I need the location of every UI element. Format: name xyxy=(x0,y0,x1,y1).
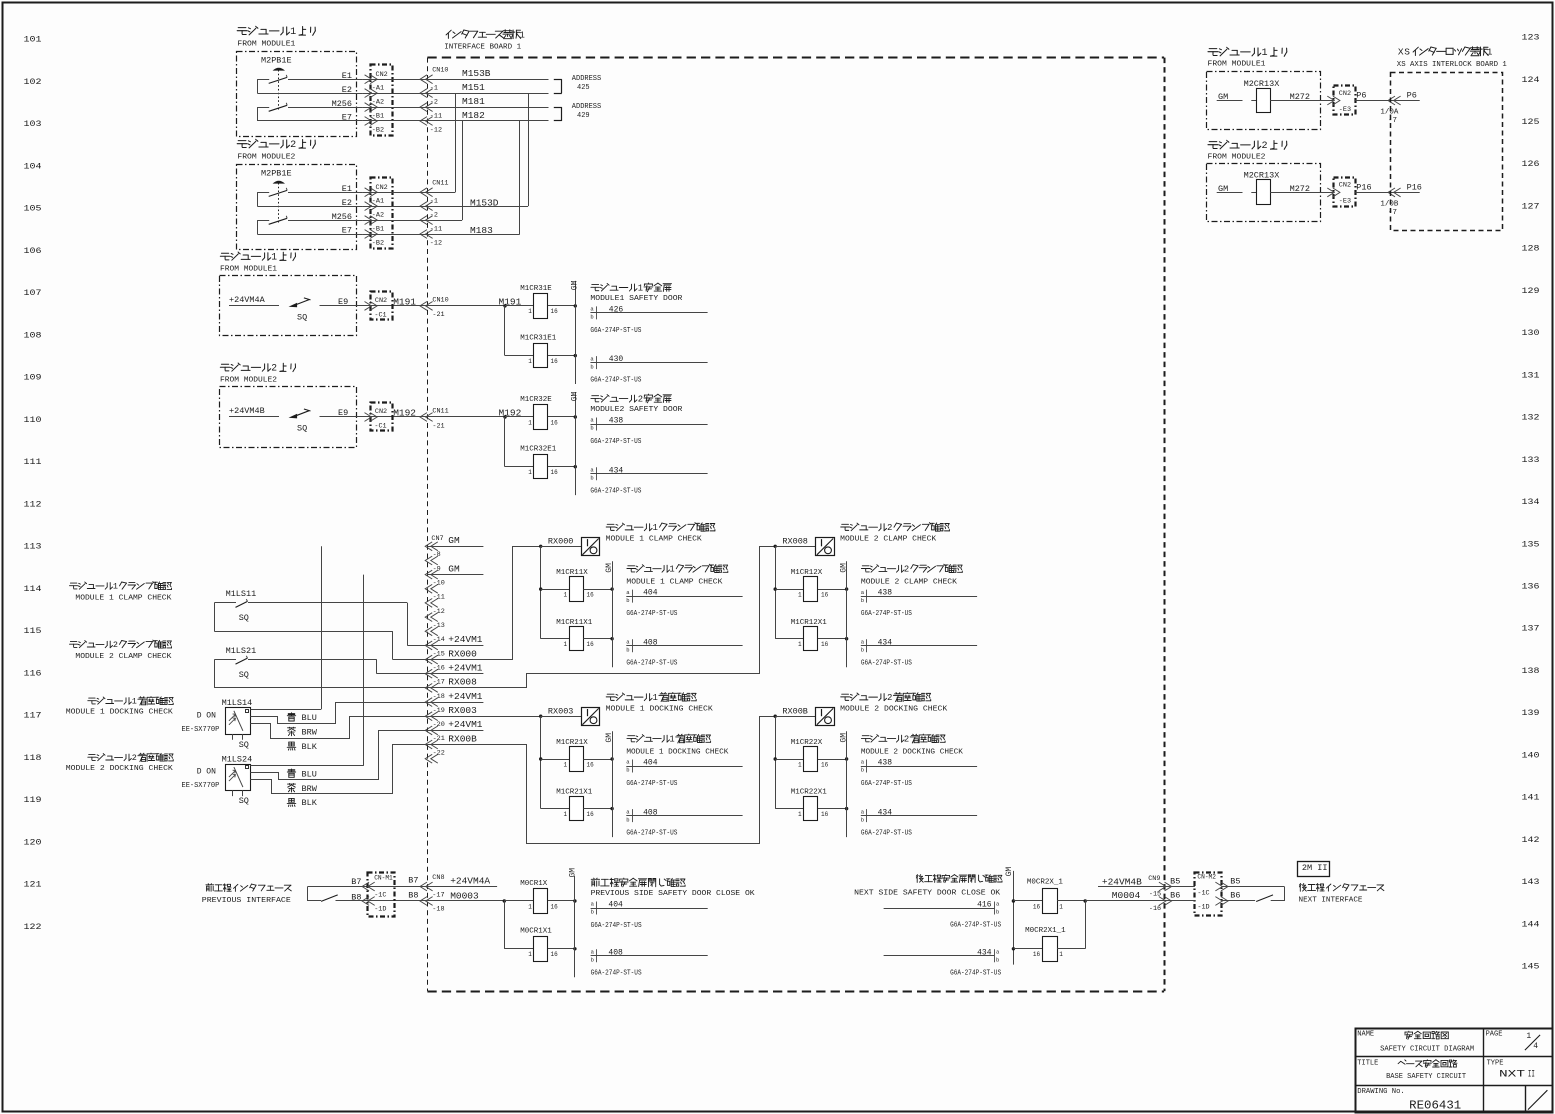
svg-text:1: 1 xyxy=(1487,46,1493,57)
svg-text:16: 16 xyxy=(821,811,829,818)
svg-text:E2: E2 xyxy=(342,198,352,208)
svg-text:16: 16 xyxy=(551,358,559,365)
svg-text:CN2: CN2 xyxy=(375,297,387,305)
svg-text:FROM MODULE1: FROM MODULE1 xyxy=(220,266,277,274)
svg-text:M1CR32E1: M1CR32E1 xyxy=(520,446,557,454)
svg-text:-13: -13 xyxy=(433,622,445,630)
svg-text:P16: P16 xyxy=(1356,182,1371,192)
svg-text:SQ: SQ xyxy=(239,740,249,750)
svg-text:139: 139 xyxy=(1522,708,1540,718)
svg-text:G6A-274P-ST-US: G6A-274P-ST-US xyxy=(626,610,677,618)
svg-text:M0CR1X1: M0CR1X1 xyxy=(520,928,552,936)
svg-text:144: 144 xyxy=(1522,919,1540,929)
svg-text:134: 134 xyxy=(1522,497,1540,507)
svg-text:b: b xyxy=(626,597,629,604)
svg-text:2: 2 xyxy=(113,640,118,650)
svg-text:CN8: CN8 xyxy=(432,874,444,882)
svg-text:-12: -12 xyxy=(430,240,442,248)
svg-text:16: 16 xyxy=(587,641,595,648)
svg-text:P16: P16 xyxy=(1407,182,1422,192)
svg-text:BRW: BRW xyxy=(302,784,318,794)
svg-text:-C1: -C1 xyxy=(374,312,386,320)
svg-text:1: 1 xyxy=(669,735,674,745)
svg-text:ADDRESS: ADDRESS xyxy=(572,75,601,83)
svg-text:1: 1 xyxy=(564,811,568,818)
svg-text:141: 141 xyxy=(1522,793,1540,803)
svg-text:G6A-274P-ST-US: G6A-274P-ST-US xyxy=(861,610,912,618)
svg-text:-14: -14 xyxy=(433,636,445,644)
svg-text:M1CR31E: M1CR31E xyxy=(520,285,552,293)
svg-text:II: II xyxy=(1317,863,1327,873)
svg-text:E9: E9 xyxy=(338,297,348,307)
svg-text:B6: B6 xyxy=(1170,891,1180,901)
svg-text:b: b xyxy=(626,816,629,823)
svg-text:-21: -21 xyxy=(432,422,444,430)
svg-text:1: 1 xyxy=(519,29,525,40)
svg-text:M1LS11: M1LS11 xyxy=(226,589,257,599)
svg-text:b: b xyxy=(591,957,594,964)
svg-text:PAGE: PAGE xyxy=(1486,1030,1503,1038)
svg-text:137: 137 xyxy=(1522,624,1540,634)
svg-text:1: 1 xyxy=(528,903,532,910)
svg-text:CN2: CN2 xyxy=(1339,182,1351,190)
svg-text:M256: M256 xyxy=(332,99,352,109)
svg-text:106: 106 xyxy=(24,246,42,256)
svg-text:M1CR22X: M1CR22X xyxy=(791,739,823,747)
svg-text:105: 105 xyxy=(24,204,42,214)
svg-text:G6A-274P-ST-US: G6A-274P-ST-US xyxy=(590,488,641,496)
svg-text:b: b xyxy=(590,474,593,481)
svg-text:M191: M191 xyxy=(393,296,416,307)
svg-text:145: 145 xyxy=(1522,962,1540,972)
svg-text:16: 16 xyxy=(821,591,829,598)
svg-text:G6A-274P-ST-US: G6A-274P-ST-US xyxy=(626,660,677,668)
svg-text:RX003: RX003 xyxy=(448,705,477,716)
svg-text:-19: -19 xyxy=(433,707,445,715)
svg-text:E1: E1 xyxy=(342,71,352,81)
svg-text:1: 1 xyxy=(271,252,277,263)
svg-text:-15: -15 xyxy=(1149,891,1161,899)
svg-text:INTERFACE BOARD 1: INTERFACE BOARD 1 xyxy=(444,44,521,52)
svg-text:-16: -16 xyxy=(1149,905,1161,913)
svg-text:1: 1 xyxy=(113,582,118,592)
svg-text:CN10: CN10 xyxy=(432,297,448,305)
svg-text:131: 131 xyxy=(1522,370,1540,380)
svg-text:B7: B7 xyxy=(408,876,418,886)
svg-text:G6A-274P-ST-US: G6A-274P-ST-US xyxy=(591,922,642,930)
svg-text:126: 126 xyxy=(1522,159,1540,169)
svg-text:130: 130 xyxy=(1522,328,1540,338)
svg-text:BLK: BLK xyxy=(302,742,318,752)
svg-text:M1LS24: M1LS24 xyxy=(222,755,253,765)
svg-text:434: 434 xyxy=(977,948,992,957)
svg-text:CN11: CN11 xyxy=(432,180,448,188)
svg-text:2: 2 xyxy=(887,522,892,533)
svg-text:2: 2 xyxy=(638,395,643,405)
svg-text:G6A-274P-ST-US: G6A-274P-ST-US xyxy=(590,327,641,335)
svg-text:RX000: RX000 xyxy=(548,537,574,547)
svg-text:1: 1 xyxy=(1059,951,1063,958)
svg-text:BASE SAFETY CIRCUIT: BASE SAFETY CIRCUIT xyxy=(1386,1073,1466,1081)
svg-text:M1CR11X1: M1CR11X1 xyxy=(556,619,593,627)
svg-text:CN2: CN2 xyxy=(376,184,388,192)
svg-text:M182: M182 xyxy=(462,110,485,121)
svg-text:+24VM1: +24VM1 xyxy=(448,691,483,702)
svg-text:1: 1 xyxy=(290,27,296,38)
svg-text:112: 112 xyxy=(24,499,42,509)
svg-text:119: 119 xyxy=(24,795,42,805)
svg-text:MODULE 2 DOCKING CHECK: MODULE 2 DOCKING CHECK xyxy=(861,748,964,756)
svg-text:M2PB1E: M2PB1E xyxy=(261,169,292,179)
svg-text:426: 426 xyxy=(609,306,624,315)
svg-text:CN2: CN2 xyxy=(375,408,387,416)
svg-text:16: 16 xyxy=(821,641,829,648)
svg-text:CN-M2: CN-M2 xyxy=(1197,874,1216,881)
svg-text:E9: E9 xyxy=(338,408,348,418)
svg-text:MODULE 1 DOCKING CHECK: MODULE 1 DOCKING CHECK xyxy=(606,706,714,714)
svg-text:2: 2 xyxy=(904,735,909,745)
svg-text:SQ: SQ xyxy=(239,796,249,806)
svg-text:108: 108 xyxy=(24,330,42,340)
svg-text:ADDRESS: ADDRESS xyxy=(572,103,601,111)
svg-text:M1CR31E1: M1CR31E1 xyxy=(520,334,557,342)
svg-text:FROM MODULE2: FROM MODULE2 xyxy=(1208,154,1266,162)
svg-text:SQ: SQ xyxy=(239,613,249,623)
svg-text:FROM MODULE1: FROM MODULE1 xyxy=(237,41,295,49)
svg-text:4: 4 xyxy=(1533,1042,1538,1051)
svg-text:GM: GM xyxy=(839,563,848,573)
svg-text:16: 16 xyxy=(551,469,559,476)
svg-text:BLU: BLU xyxy=(302,713,317,723)
svg-text:RE06431: RE06431 xyxy=(1409,1099,1461,1113)
svg-text:EE-SX770P: EE-SX770P xyxy=(182,726,220,734)
svg-text:-A1: -A1 xyxy=(372,198,384,206)
svg-text:2: 2 xyxy=(290,140,296,151)
svg-text:+24VM4B: +24VM4B xyxy=(229,406,265,416)
svg-text:122: 122 xyxy=(24,922,42,932)
svg-text:-8: -8 xyxy=(433,551,441,559)
svg-text:-12: -12 xyxy=(430,127,442,135)
svg-text:BLU: BLU xyxy=(302,769,317,779)
svg-text:2: 2 xyxy=(887,692,892,703)
svg-text:PREVIOUS SIDE SAFETY DOOR CLOS: PREVIOUS SIDE SAFETY DOOR CLOSE OK xyxy=(591,890,756,898)
svg-text:b: b xyxy=(626,767,629,774)
svg-text:-E3: -E3 xyxy=(1339,198,1351,206)
svg-text:M192: M192 xyxy=(393,407,416,418)
svg-text:b: b xyxy=(996,909,999,916)
svg-text:M153B: M153B xyxy=(462,68,491,79)
svg-text:1: 1 xyxy=(798,811,802,818)
svg-text:BLK: BLK xyxy=(302,798,318,808)
svg-text:b: b xyxy=(590,425,593,432)
svg-text:117: 117 xyxy=(24,711,42,721)
svg-text:NEXT INTERFACE: NEXT INTERFACE xyxy=(1299,896,1363,904)
svg-text:M1CR21X: M1CR21X xyxy=(556,739,588,747)
svg-text:109: 109 xyxy=(24,373,42,383)
svg-text:XS AXIS INTERLOCK BOARD 1: XS AXIS INTERLOCK BOARD 1 xyxy=(1397,61,1507,69)
svg-text:GM: GM xyxy=(1005,867,1014,877)
svg-text:-B2: -B2 xyxy=(372,240,384,248)
svg-text:EE-SX770P: EE-SX770P xyxy=(182,782,220,790)
svg-text:16: 16 xyxy=(551,903,559,910)
svg-text:P6: P6 xyxy=(1407,90,1417,100)
svg-text:-22: -22 xyxy=(433,749,445,757)
svg-text:133: 133 xyxy=(1522,455,1540,465)
svg-text:FROM MODULE2: FROM MODULE2 xyxy=(237,154,295,162)
svg-text:G6A-274P-ST-US: G6A-274P-ST-US xyxy=(950,970,1001,978)
svg-text:101: 101 xyxy=(24,35,42,45)
svg-text:118: 118 xyxy=(24,753,42,763)
svg-text:CN2: CN2 xyxy=(376,71,388,79)
svg-text:GM: GM xyxy=(448,535,460,546)
svg-text:MODULE 2 CLAMP CHECK: MODULE 2 CLAMP CHECK xyxy=(861,579,958,587)
svg-text:M1LS14: M1LS14 xyxy=(222,698,253,708)
svg-text:M256: M256 xyxy=(332,212,352,222)
svg-text:CN10: CN10 xyxy=(432,67,448,75)
svg-text:111: 111 xyxy=(24,457,42,467)
svg-text:1/0B: 1/0B xyxy=(1380,200,1399,208)
svg-text:MODULE 1 CLAMP CHECK: MODULE 1 CLAMP CHECK xyxy=(626,579,723,587)
svg-text:16: 16 xyxy=(1033,951,1041,958)
svg-text:b: b xyxy=(861,767,864,774)
svg-text:1: 1 xyxy=(564,591,568,598)
svg-text:TYPE: TYPE xyxy=(1487,1060,1504,1068)
svg-text:-1: -1 xyxy=(430,85,438,93)
svg-text:-21: -21 xyxy=(432,311,444,319)
svg-text:132: 132 xyxy=(1522,413,1540,423)
svg-text:16: 16 xyxy=(821,761,829,768)
svg-text:SQ: SQ xyxy=(239,670,249,680)
svg-text:+24VM4B: +24VM4B xyxy=(1102,876,1142,887)
svg-text:GM: GM xyxy=(571,280,580,290)
svg-text:M272: M272 xyxy=(1290,184,1310,194)
svg-text:NXT: NXT xyxy=(1499,1069,1525,1080)
svg-text:-2: -2 xyxy=(430,99,438,107)
svg-text:16: 16 xyxy=(1033,903,1041,910)
svg-text:GM: GM xyxy=(839,733,848,743)
svg-text:G6A-274P-ST-US: G6A-274P-ST-US xyxy=(950,922,1001,930)
svg-text:-9: -9 xyxy=(433,565,441,573)
svg-text:-1D: -1D xyxy=(374,906,386,914)
svg-text:-11: -11 xyxy=(430,226,442,234)
svg-text:128: 128 xyxy=(1522,244,1540,254)
svg-text:110: 110 xyxy=(24,415,42,425)
svg-text:CN9: CN9 xyxy=(1148,875,1160,883)
svg-text:-A1: -A1 xyxy=(372,85,384,93)
svg-text:FROM MODULE1: FROM MODULE1 xyxy=(1208,61,1266,69)
svg-text:M0CR1X: M0CR1X xyxy=(520,880,548,888)
svg-text:TITLE: TITLE xyxy=(1357,1060,1378,1068)
svg-text:16: 16 xyxy=(587,591,595,598)
svg-text:425: 425 xyxy=(577,84,590,92)
svg-text:SAFETY CIRCUIT DIAGRAM: SAFETY CIRCUIT DIAGRAM xyxy=(1380,1045,1474,1053)
svg-text:-1C: -1C xyxy=(1197,889,1209,897)
svg-text:MODULE 1 CLAMP CHECK: MODULE 1 CLAMP CHECK xyxy=(75,594,172,602)
svg-text:M1CR22X1: M1CR22X1 xyxy=(791,789,828,797)
svg-text:138: 138 xyxy=(1522,666,1540,676)
svg-text:GM: GM xyxy=(571,391,580,401)
svg-text:E7: E7 xyxy=(342,113,352,123)
svg-text:MODULE 1 DOCKING CHECK: MODULE 1 DOCKING CHECK xyxy=(626,748,729,756)
svg-text:DRAWING No.: DRAWING No. xyxy=(1357,1088,1404,1096)
svg-text:408: 408 xyxy=(608,948,623,957)
svg-text:MODULE 1 CLAMP CHECK: MODULE 1 CLAMP CHECK xyxy=(606,536,703,544)
svg-text:M2PB1E: M2PB1E xyxy=(261,56,292,66)
svg-text:142: 142 xyxy=(1522,835,1540,845)
svg-text:-17: -17 xyxy=(432,891,444,899)
svg-text:GM: GM xyxy=(605,563,614,573)
svg-text:2: 2 xyxy=(271,363,277,374)
svg-text:2M: 2M xyxy=(1302,863,1312,873)
svg-text:1: 1 xyxy=(798,591,802,598)
svg-text:RX008: RX008 xyxy=(448,677,477,688)
svg-text:429: 429 xyxy=(577,112,590,120)
svg-text:M1CR32E: M1CR32E xyxy=(520,396,552,404)
svg-text:104: 104 xyxy=(24,161,42,171)
svg-text:CN-M1: CN-M1 xyxy=(374,874,393,881)
svg-text:b: b xyxy=(996,957,999,964)
svg-text:121: 121 xyxy=(24,880,42,890)
svg-text:M0004: M0004 xyxy=(1112,890,1141,901)
svg-text:+24VM1: +24VM1 xyxy=(448,719,483,730)
svg-text:16: 16 xyxy=(587,811,595,818)
svg-text:M1CR12X: M1CR12X xyxy=(791,569,823,577)
svg-text:123: 123 xyxy=(1522,33,1540,43)
svg-text:113: 113 xyxy=(24,542,42,552)
svg-text:-B2: -B2 xyxy=(372,127,384,135)
svg-text:MODULE 2 DOCKING CHECK: MODULE 2 DOCKING CHECK xyxy=(66,765,174,773)
svg-text:MODULE1 SAFETY DOOR: MODULE1 SAFETY DOOR xyxy=(590,295,683,303)
svg-text:1: 1 xyxy=(638,283,643,293)
svg-text:1: 1 xyxy=(653,692,658,703)
svg-text:16: 16 xyxy=(551,419,559,426)
svg-text:-17: -17 xyxy=(433,679,445,687)
svg-text:-10: -10 xyxy=(433,580,445,588)
svg-text:E7: E7 xyxy=(342,226,352,236)
svg-text:-7: -7 xyxy=(1388,117,1397,125)
svg-text:M1CR21X1: M1CR21X1 xyxy=(556,789,593,797)
svg-text:RX003: RX003 xyxy=(548,707,574,717)
svg-text:X: X xyxy=(1398,46,1404,57)
svg-text:RX00B: RX00B xyxy=(448,733,477,744)
svg-text:GM: GM xyxy=(568,868,577,878)
svg-text:-18: -18 xyxy=(432,906,444,914)
svg-text:MODULE 2 CLAMP CHECK: MODULE 2 CLAMP CHECK xyxy=(840,536,937,544)
svg-text:G6A-274P-ST-US: G6A-274P-ST-US xyxy=(861,830,912,838)
svg-text:-1D: -1D xyxy=(1197,904,1209,912)
svg-text:16: 16 xyxy=(551,308,559,315)
svg-text:124: 124 xyxy=(1522,75,1540,85)
svg-text:-1C: -1C xyxy=(374,891,386,899)
svg-text:-1: -1 xyxy=(430,198,438,206)
svg-text:1: 1 xyxy=(798,641,802,648)
svg-text:CN2: CN2 xyxy=(1339,90,1351,98)
svg-text:P6: P6 xyxy=(1356,90,1366,100)
svg-text:135: 135 xyxy=(1522,539,1540,549)
svg-text:127: 127 xyxy=(1522,201,1540,211)
svg-text:1: 1 xyxy=(528,358,532,365)
svg-text:MODULE2 SAFETY DOOR: MODULE2 SAFETY DOOR xyxy=(590,406,683,414)
svg-text:-A2: -A2 xyxy=(372,99,384,107)
svg-text:+24VM4A: +24VM4A xyxy=(229,295,266,305)
svg-text:RX000: RX000 xyxy=(448,648,477,659)
svg-text:RX00B: RX00B xyxy=(782,707,808,717)
svg-text:-B1: -B1 xyxy=(372,113,384,121)
svg-text:-11: -11 xyxy=(430,113,442,121)
svg-text:MODULE 1 DOCKING CHECK: MODULE 1 DOCKING CHECK xyxy=(66,709,174,717)
svg-text:2: 2 xyxy=(904,565,909,575)
svg-text:-18: -18 xyxy=(433,693,445,701)
svg-text:+24VM1: +24VM1 xyxy=(448,634,483,645)
svg-text:16: 16 xyxy=(587,761,595,768)
svg-text:SQ: SQ xyxy=(297,424,307,434)
svg-text:G6A-274P-ST-US: G6A-274P-ST-US xyxy=(590,438,641,446)
svg-text:-12: -12 xyxy=(433,608,445,616)
svg-text:1: 1 xyxy=(528,951,532,958)
svg-text:M181: M181 xyxy=(462,96,485,107)
svg-text:G6A-274P-ST-US: G6A-274P-ST-US xyxy=(861,660,912,668)
svg-text:1/0A: 1/0A xyxy=(1380,109,1399,117)
svg-text:136: 136 xyxy=(1522,582,1540,592)
svg-text:B5: B5 xyxy=(1170,877,1180,887)
svg-text:MODULE 2 DOCKING CHECK: MODULE 2 DOCKING CHECK xyxy=(840,706,948,714)
svg-text:MODULE 2 CLAMP CHECK: MODULE 2 CLAMP CHECK xyxy=(75,653,172,661)
svg-text:-16: -16 xyxy=(433,664,445,672)
svg-text:E2: E2 xyxy=(342,85,352,95)
svg-text:GM: GM xyxy=(448,563,460,574)
svg-text:M2CR13X: M2CR13X xyxy=(1244,79,1280,89)
svg-text:NAME: NAME xyxy=(1357,1030,1374,1038)
svg-text:G6A-274P-ST-US: G6A-274P-ST-US xyxy=(590,377,641,385)
svg-text:M0CR2X1_1: M0CR2X1_1 xyxy=(1025,927,1066,935)
svg-text:FROM MODULE2: FROM MODULE2 xyxy=(220,377,277,385)
svg-text:B5: B5 xyxy=(1230,877,1240,887)
svg-text:II: II xyxy=(1528,1069,1535,1080)
svg-text:G6A-274P-ST-US: G6A-274P-ST-US xyxy=(591,970,642,978)
svg-text:102: 102 xyxy=(24,77,42,87)
svg-text:SQ: SQ xyxy=(297,313,307,323)
svg-text:GM: GM xyxy=(605,733,614,743)
svg-text:2: 2 xyxy=(1262,141,1268,152)
svg-text:1: 1 xyxy=(528,469,532,476)
svg-text:b: b xyxy=(590,314,593,321)
svg-text:1: 1 xyxy=(528,308,532,315)
svg-text:1: 1 xyxy=(1059,903,1063,910)
svg-text:-7: -7 xyxy=(1388,209,1397,217)
svg-text:B6: B6 xyxy=(1230,891,1240,901)
svg-text:M151: M151 xyxy=(462,82,485,93)
svg-text:NEXT SIDE SAFETY DOOR CLOSE OK: NEXT SIDE SAFETY DOOR CLOSE OK xyxy=(854,889,1001,897)
svg-text:16: 16 xyxy=(551,951,559,958)
svg-text:M0CR2X_1: M0CR2X_1 xyxy=(1027,879,1064,887)
svg-text:140: 140 xyxy=(1522,750,1540,760)
svg-text:-21: -21 xyxy=(433,735,445,743)
svg-text:M1CR11X: M1CR11X xyxy=(556,569,588,577)
svg-text:-2: -2 xyxy=(430,212,438,220)
svg-text:1: 1 xyxy=(798,761,802,768)
svg-text:-C1: -C1 xyxy=(374,423,386,431)
svg-text:1: 1 xyxy=(669,565,674,575)
svg-text:b: b xyxy=(591,909,594,916)
svg-text:G6A-274P-ST-US: G6A-274P-ST-US xyxy=(626,830,677,838)
svg-text:+24VM1: +24VM1 xyxy=(448,663,483,674)
svg-text:115: 115 xyxy=(24,626,42,636)
svg-text:CN7: CN7 xyxy=(431,535,443,543)
svg-text:-20: -20 xyxy=(433,721,445,729)
svg-text:-E3: -E3 xyxy=(1339,106,1351,114)
svg-text:BRW: BRW xyxy=(302,728,318,738)
svg-text:-15: -15 xyxy=(433,650,445,658)
